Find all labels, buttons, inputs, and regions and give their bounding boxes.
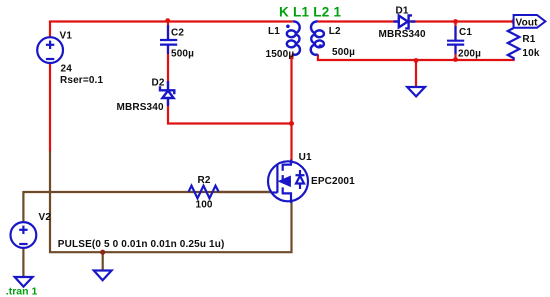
svg-text:D2: D2 <box>152 78 165 89</box>
svg-text:D1: D1 <box>396 6 409 17</box>
ground V2 <box>15 277 33 287</box>
svg-text:200µ: 200µ <box>458 49 481 60</box>
phase dot L1 <box>286 25 290 29</box>
ground right <box>407 87 425 96</box>
svg-text:K L1 L2 1: K L1 L2 1 <box>279 5 342 20</box>
wire R2 right lead to gate <box>219 191 272 193</box>
svg-text:R1: R1 <box>522 34 535 45</box>
svg-text:MBRS340: MBRS340 <box>117 102 164 113</box>
wire V1 bottom brown segment to bottom rail <box>50 151 292 252</box>
svg-text:500µ: 500µ <box>332 47 355 58</box>
svg-text:10k: 10k <box>522 48 539 59</box>
wire R1 top lead <box>512 22 514 29</box>
svg-text:Vout: Vout <box>516 17 539 28</box>
resistor R1 <box>508 28 520 60</box>
svg-text:V2: V2 <box>39 212 52 223</box>
svg-text:24: 24 <box>61 64 73 75</box>
wire L2 bottom corner <box>318 54 514 60</box>
wire L2 top to Vout rail <box>318 20 514 22</box>
phase dot L2 <box>319 44 323 48</box>
svg-text:R2: R2 <box>198 175 211 186</box>
voltage source V2 <box>11 222 37 248</box>
voltage source V1 <box>37 37 63 63</box>
svg-text:Rser=0.1: Rser=0.1 <box>60 75 103 86</box>
wire switch node horizontal <box>167 122 292 124</box>
svg-text:U1: U1 <box>299 152 312 163</box>
junction node ground right <box>414 58 419 63</box>
svg-text:.tran 1: .tran 1 <box>6 286 38 297</box>
svg-text:V1: V1 <box>60 31 73 42</box>
inductor L1 (primary) <box>287 21 300 54</box>
wire V2 bottom to ground <box>22 249 24 277</box>
junction node C1 top <box>453 19 458 24</box>
capacitor C2 <box>160 25 177 54</box>
svg-text:L2: L2 <box>329 26 341 37</box>
svg-text:L1: L1 <box>268 26 280 37</box>
nmos U1 EPC2001 <box>268 160 308 204</box>
svg-text:1500µ: 1500µ <box>266 49 295 60</box>
svg-text:500µ: 500µ <box>171 49 194 60</box>
net flag Vout <box>514 15 546 28</box>
wire C1 bottom pin <box>454 46 456 61</box>
ground bottom middle <box>94 271 112 281</box>
capacitor C1 <box>447 26 464 54</box>
junction node C2 top <box>165 18 170 23</box>
junction node drain <box>289 121 294 126</box>
svg-text:EPC2001: EPC2001 <box>311 176 355 187</box>
svg-text:C2: C2 <box>171 28 184 39</box>
svg-text:PULSE(0 5 0 0.01n 0.01n 0.25u: PULSE(0 5 0 0.01n 0.01n 0.25u 1u) <box>58 239 225 250</box>
wire ground stub right <box>415 60 417 87</box>
junction node source ground <box>100 250 105 255</box>
svg-text:C1: C1 <box>459 27 472 38</box>
svg-text:100: 100 <box>196 200 213 211</box>
resistor R2 <box>189 186 219 199</box>
wire V1 bottom red segment <box>49 64 51 152</box>
junction node C1 bottom <box>453 57 458 62</box>
wire C1 top pin <box>454 22 456 41</box>
wire gate line (V2 to U1 gate) <box>23 192 272 222</box>
inductor L2 (secondary) <box>311 21 324 54</box>
wire ground stub bottom <box>102 252 104 270</box>
wire L1 bottom to drain <box>290 54 293 160</box>
wire top rail left (V1 to L1) <box>50 22 293 37</box>
diode D1 (schottky, horizontal) <box>394 15 416 28</box>
wire C2/D2 branch middle <box>167 46 169 125</box>
junction node Vout <box>511 19 516 24</box>
svg-text:MBRS340: MBRS340 <box>379 29 426 40</box>
wire C2/D2 branch upper <box>167 22 169 41</box>
diode D2 (schottky, cathode up) <box>160 81 174 106</box>
